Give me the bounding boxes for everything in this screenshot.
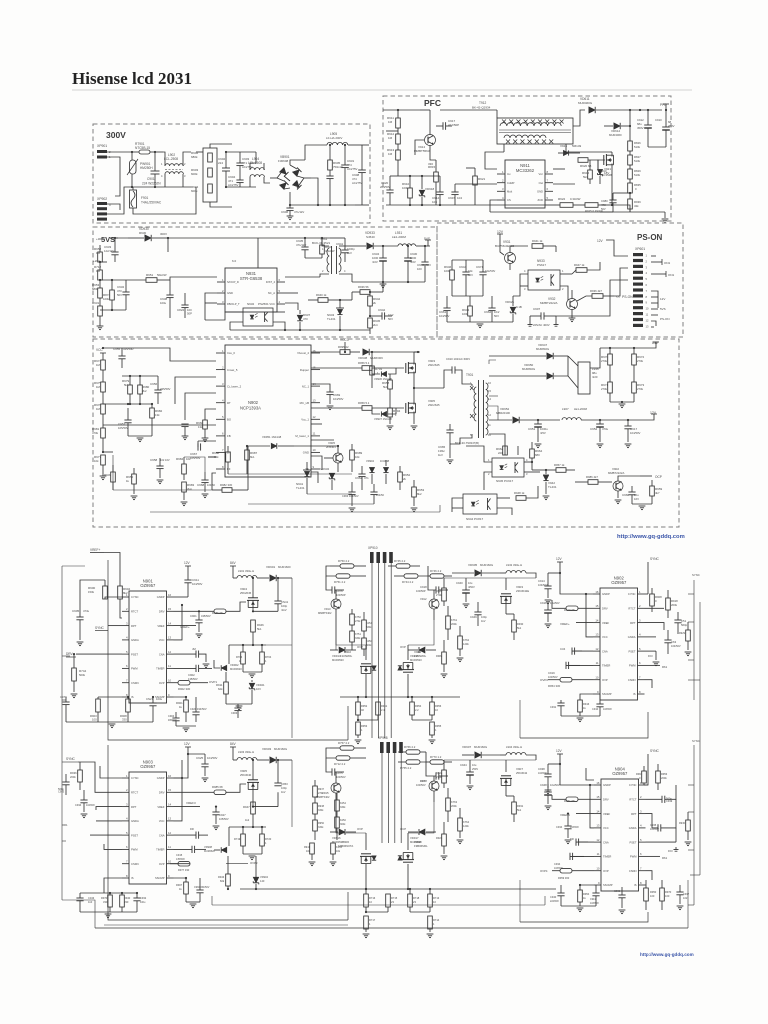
inductor T912 label: [472, 101, 491, 110]
resistor R903: [90, 699, 100, 722]
resistor R718: [408, 888, 420, 912]
svg-text:510k: 510k: [634, 145, 641, 149]
svg-text:CS: CS: [507, 198, 511, 202]
svg-text:1: 1: [361, 728, 363, 732]
svg-text:435/50V: 435/50V: [160, 387, 171, 391]
svg-text:Cmax_5: Cmax_5: [227, 368, 238, 372]
wire cross trunk: [292, 645, 520, 922]
diode VD930: [96, 227, 168, 241]
capacitor C906: [281, 204, 304, 220]
capacitor C967: [190, 441, 201, 460]
capacitor CN21: [146, 696, 163, 722]
svg-text:VD937 1N4148: VD937 1N4148: [374, 417, 392, 421]
capacitor C939d: [646, 785, 677, 803]
svg-text:MUR160G: MUR160G: [274, 747, 287, 751]
inverter controller N902: [593, 575, 645, 700]
svg-text:XP601: XP601: [635, 247, 645, 251]
connector XP901: [97, 144, 111, 159]
svg-text:Ct_lower_2: Ct_lower_2: [227, 384, 242, 388]
svg-text:0: 0: [635, 187, 637, 191]
svg-text:K763: K763: [451, 800, 458, 804]
svg-text:435/50V: 435/50V: [201, 614, 211, 618]
svg-text:7: 7: [126, 860, 128, 864]
svg-text:330: 330: [124, 900, 129, 904]
svg-text:680: 680: [535, 453, 540, 457]
svg-text:VD903: VD903: [262, 747, 272, 751]
svg-text:1kV: 1kV: [281, 790, 286, 794]
wire XP901 to node: [107, 152, 132, 214]
svg-text:GNDP: GNDP: [602, 592, 610, 596]
svg-text:1: 1: [126, 774, 128, 778]
wire GNDA N904: [646, 828, 679, 853]
svg-text:R719: R719: [234, 837, 241, 841]
wire N931 connections: [170, 277, 320, 320]
resistor K764: [457, 808, 470, 844]
svg-text:MC_LB: MC_LB: [300, 401, 309, 405]
svg-text:V915: V915: [560, 144, 567, 148]
svg-text:C914: C914: [538, 579, 545, 583]
svg-text:12: 12: [313, 415, 317, 419]
svg-text:R936 56: R936 56: [358, 285, 369, 289]
svg-text:7: 7: [639, 676, 641, 680]
svg-text:VREF+: VREF+: [560, 622, 570, 626]
svg-text:C937: C937: [683, 892, 690, 896]
inverter controller N903: [122, 759, 174, 884]
svg-text:224 W2252N: 224 W2252N: [142, 182, 161, 186]
capacitor C904: [168, 712, 196, 732]
svg-text:V913: V913: [324, 607, 331, 611]
svg-text:470: 470: [303, 317, 308, 321]
svg-text:11: 11: [313, 432, 316, 436]
capacitor C953: [624, 419, 640, 448]
capacitor C952: [590, 419, 609, 448]
capacitor C936d: [570, 837, 594, 846]
svg-text:VCC: VCC: [602, 635, 608, 639]
12V label N901: [174, 561, 192, 597]
optocoupler N933: [513, 259, 572, 296]
resistor R985b: [174, 602, 247, 615]
PFC top rail: [383, 110, 497, 131]
svg-text:270k: 270k: [637, 359, 644, 363]
svg-text:9: 9: [597, 690, 599, 694]
wire lower rail: [132, 187, 196, 214]
svg-text:NC_1: NC_1: [302, 384, 310, 388]
svg-text:10k: 10k: [94, 459, 99, 463]
PS-ON block label: [637, 233, 663, 242]
resistor R930r: [679, 812, 691, 846]
svg-text:100k: 100k: [402, 186, 409, 190]
svg-text:100u: 100u: [140, 901, 146, 904]
resistor R964c: [636, 766, 648, 785]
wire right trunk: [688, 580, 700, 905]
zener VD904: [366, 459, 375, 484]
svg-text:SYNC: SYNC: [66, 757, 76, 761]
VREF+ label N901: [90, 548, 120, 586]
MOSFET V904c: [402, 645, 427, 698]
svg-text:R770 1.2: R770 1.2: [430, 755, 442, 759]
svg-text:R948 1k: R948 1k: [514, 491, 525, 495]
wire VCC N904: [589, 784, 594, 828]
svg-text:R751 2.2: R751 2.2: [334, 580, 346, 584]
svg-text:3: 3: [524, 287, 526, 291]
svg-text:13: 13: [168, 817, 172, 821]
svg-text:7: 7: [640, 867, 642, 871]
resistor R946b: [251, 620, 264, 646]
svg-text:11: 11: [646, 313, 649, 317]
svg-text:1: 1: [639, 590, 641, 594]
svg-text:2k: 2k: [403, 477, 407, 481]
resistor R952b: [398, 466, 411, 490]
resistor R953: [92, 283, 102, 306]
svg-text:10k: 10k: [355, 455, 360, 459]
svg-text:270k: 270k: [436, 775, 442, 779]
svg-text:CNA: CNA: [159, 652, 165, 656]
svg-text:50V: 50V: [426, 263, 431, 267]
capacitor C910: [648, 109, 675, 147]
svg-text:VD901: VD901: [266, 565, 276, 569]
svg-text:RPT: RPT: [131, 805, 137, 809]
svg-text:560p: 560p: [58, 787, 64, 791]
svg-text:11: 11: [596, 661, 599, 665]
svg-text:5: 5: [222, 415, 224, 419]
svg-text:R930: R930: [679, 822, 686, 825]
resistor R985c: [174, 784, 247, 795]
svg-text:GND: GND: [227, 291, 233, 295]
svg-text:12: 12: [488, 413, 491, 417]
resistor K753: [362, 638, 373, 656]
resistor R947: [572, 262, 600, 274]
svg-text:R750 2.2: R750 2.2: [338, 559, 350, 563]
resistor R936b: [577, 289, 614, 301]
svg-text:1kV: 1kV: [347, 251, 352, 255]
svg-text:7: 7: [646, 289, 648, 293]
capacitor C973: [416, 762, 448, 787]
svg-text:270k: 270k: [355, 620, 361, 623]
resistor R955c: [429, 722, 442, 744]
svg-text:S4540: S4540: [366, 235, 375, 239]
svg-text:http://www.gq-gddq.com: http://www.gq-gddq.com: [617, 534, 685, 540]
svg-text:1: 1: [562, 269, 564, 273]
svg-text:K762: K762: [463, 638, 470, 642]
capacitor C976: [326, 576, 346, 597]
capacitor C918c: [540, 601, 560, 628]
resistor R913: [387, 144, 400, 176]
svg-text:6: 6: [640, 852, 642, 856]
svg-text:K751: K751: [355, 633, 361, 636]
capacitor C940c: [456, 578, 475, 608]
wire XP601 left pins: [556, 268, 628, 316]
svg-text:1: 1: [322, 247, 324, 251]
svg-text:13: 13: [168, 636, 172, 640]
svg-text:VD904: VD904: [260, 875, 268, 879]
pill R951d: [552, 795, 594, 803]
resistor R920: [578, 158, 598, 169]
resistor R826: [628, 141, 641, 155]
capacitor C920: [380, 176, 435, 205]
svg-text:C948: C948: [540, 783, 547, 787]
svg-text:C958: C958: [150, 458, 158, 462]
capacitor C925: [187, 753, 218, 782]
svg-text:MUR1600: MUR1600: [278, 565, 291, 569]
svg-text:9: 9: [646, 301, 648, 305]
svg-text:11: 11: [597, 852, 600, 856]
resistor R970d: [660, 880, 672, 910]
svg-text:T901: T901: [466, 373, 473, 377]
svg-text:N932: N932: [247, 302, 255, 306]
svg-text:4: 4: [646, 271, 648, 275]
svg-text:600k: 600k: [191, 172, 198, 176]
svg-text:/16V: /16V: [410, 260, 416, 264]
capacitor C975: [326, 758, 346, 779]
svg-text:104/50V: 104/50V: [86, 804, 95, 807]
svg-text:C935: C935: [650, 823, 657, 827]
resistor R716: [364, 888, 376, 912]
12V label N903: [174, 742, 192, 778]
transformer T901: [455, 373, 491, 445]
pill R919: [552, 600, 593, 612]
svg-text:8: 8: [646, 295, 648, 299]
svg-text:C34: C34: [560, 647, 566, 651]
resistor R902p: [174, 680, 218, 691]
svg-text:470u: 470u: [602, 427, 609, 431]
svg-text:R941 1k: R941 1k: [532, 239, 543, 243]
pill R959d: [540, 868, 594, 880]
svg-text:13k: 13k: [198, 425, 203, 429]
diode VD611: [578, 97, 641, 113]
resistor R980: [138, 376, 150, 404]
resistor R250: [335, 817, 347, 840]
svg-text:2: 2: [488, 472, 490, 476]
wire to T901: [462, 380, 472, 386]
choke L946: [568, 348, 648, 394]
diode VD903b: [252, 747, 292, 763]
connector XP908: [378, 736, 403, 753]
shunt regulator N941 TL431: [296, 462, 311, 494]
resistor R970: [601, 347, 612, 382]
svg-text:PS2561: PS2561: [258, 302, 269, 306]
svg-text:ON1: ON1: [664, 261, 671, 265]
resistor K752: [362, 612, 373, 638]
SYNC label N903: [66, 757, 122, 792]
svg-text:C941: C941: [336, 242, 344, 246]
svg-text:MMBT5402: MMBT5402: [318, 611, 332, 615]
svg-text:16: 16: [596, 781, 600, 785]
svg-text:1M: 1M: [96, 407, 101, 411]
svg-text:2: 2: [646, 259, 648, 263]
resistor R929r: [679, 622, 691, 656]
svg-text:1M: 1M: [388, 120, 393, 124]
resistor R254: [335, 793, 347, 817]
svg-text:140: 140: [260, 879, 265, 883]
svg-text:750mW: 750mW: [333, 165, 343, 169]
svg-text:R940: R940: [124, 896, 131, 900]
resistor R745: [388, 559, 420, 568]
svg-text:PSET: PSET: [629, 840, 636, 844]
svg-text:OZ9957: OZ9957: [140, 764, 156, 769]
svg-text:RPT: RPT: [131, 624, 137, 628]
svg-text:C915: C915: [448, 196, 456, 200]
svg-text:VREF+: VREF+: [180, 625, 190, 629]
svg-text:104/50: 104/50: [376, 493, 384, 497]
svg-text:R954 330: R954 330: [548, 684, 561, 688]
resistor R983b: [181, 482, 195, 506]
resistor R931c: [506, 796, 524, 822]
svg-text:270k: 270k: [601, 359, 608, 363]
svg-text:PSET: PSET: [131, 652, 138, 656]
diode VD937b: [372, 408, 396, 421]
svg-text:300k: 300k: [340, 823, 346, 826]
capacitor C914b: [538, 572, 561, 604]
svg-text:VCC: VCC: [159, 819, 165, 823]
resistor R981: [92, 427, 105, 453]
wire N902 PWM: [645, 665, 668, 669]
svg-text:10: 10: [433, 900, 436, 904]
svg-text:225/AC 400V: 225/AC 400V: [533, 323, 550, 327]
capacitor C980b: [601, 193, 620, 212]
svg-text:CYNC: CYNC: [628, 592, 636, 596]
svg-text:9: 9: [313, 465, 315, 469]
svg-text:135/50V: 135/50V: [176, 858, 185, 861]
wire 300V out: [362, 145, 369, 205]
diode VD951: [248, 435, 294, 449]
capacitor C977: [416, 576, 448, 594]
svg-text:MMBT2222A: MMBT2222A: [608, 471, 624, 475]
svg-text:NC_A: NC_A: [268, 291, 275, 295]
svg-text:F9B06N0TA: F9B06N0TA: [338, 844, 353, 848]
svg-text:16: 16: [488, 381, 491, 385]
svg-text:3: 3: [222, 382, 224, 386]
svg-text:6: 6: [646, 283, 648, 287]
svg-text:R977 330: R977 330: [178, 868, 190, 872]
website url bottom: [640, 952, 694, 957]
svg-text:VREF: VREF: [603, 812, 611, 816]
svg-text:1kV: 1kV: [438, 453, 443, 457]
svg-text:100k: 100k: [462, 312, 469, 316]
resistor R922: [545, 197, 585, 207]
transistor V913: [318, 590, 341, 622]
resistor R757: [330, 741, 366, 750]
wire pfc right bottom: [600, 110, 668, 223]
diode V915: [558, 144, 582, 156]
svg-text:V917: V917: [420, 779, 427, 783]
capacitor C933: [104, 237, 128, 262]
capacitor C968: [184, 457, 216, 498]
svg-text:OVP: OVP: [602, 678, 608, 682]
svg-text:1k: 1k: [179, 887, 182, 891]
capacitor C904: [226, 152, 256, 187]
capacitor C940d: [550, 885, 565, 906]
svg-text:Inv: Inv: [507, 172, 511, 176]
capacitor C964: [370, 484, 384, 504]
wire SSCMP N901: [174, 696, 188, 700]
svg-text:R717: R717: [369, 918, 376, 922]
capacitor C944: [459, 260, 473, 296]
zener VD921b: [447, 296, 522, 328]
svg-text:LE1-200M: LE1-200M: [392, 235, 406, 239]
VREF label N902: [560, 622, 593, 626]
svg-text:R716: R716: [369, 896, 376, 900]
svg-text:AC275V: AC275V: [347, 167, 358, 171]
svg-text:F30608: F30608: [278, 159, 289, 163]
svg-text:OCP: OCP: [655, 475, 662, 479]
svg-text:MMBT2222A: MMBT2222A: [540, 301, 558, 305]
svg-text:330: 330: [103, 900, 108, 904]
svg-text:300V: 300V: [160, 232, 167, 236]
svg-text:2SK2645: 2SK2645: [428, 363, 440, 367]
resistor R715: [365, 894, 398, 913]
svg-text:N945 PC917: N945 PC917: [496, 479, 514, 483]
svg-text:OZ9957: OZ9957: [612, 771, 628, 776]
resistor R900: [88, 580, 122, 599]
resistor R951c: [357, 702, 388, 721]
12V label N904: [556, 749, 594, 785]
svg-text:F10SM0L: F10SM0L: [340, 654, 353, 658]
resistor R942: [368, 291, 381, 316]
wire N904 outer loop: [95, 912, 648, 930]
svg-text:15: 15: [488, 389, 491, 393]
capacitor C908: [352, 145, 366, 205]
svg-text:2k: 2k: [373, 301, 377, 305]
svg-text:12V: 12V: [660, 297, 665, 301]
svg-text:471/1kV: 471/1kV: [294, 210, 304, 214]
svg-text:R921: R921: [436, 836, 443, 840]
MOSFET V904b: [240, 578, 259, 612]
svg-text:C962: C962: [355, 476, 363, 480]
capacitor C936e: [614, 887, 626, 914]
svg-text:F901: F901: [141, 196, 148, 200]
capacitor C948c: [540, 783, 560, 810]
connector XP902: [97, 197, 111, 221]
resistor R911: [387, 109, 400, 128]
wire SSCMP N904: [579, 884, 594, 890]
svg-text:1: 1: [265, 659, 267, 663]
svg-text:C940: C940: [550, 895, 557, 899]
inverter controller N904: [594, 766, 646, 891]
svg-text:/1kV: /1kV: [281, 608, 287, 612]
choke L905: [326, 132, 342, 140]
svg-text:DRV: DRV: [66, 652, 74, 656]
diode VD916: [330, 806, 363, 844]
svg-text:OVP4: OVP4: [540, 869, 548, 873]
svg-text:5: 5: [126, 831, 128, 835]
svg-text:4: 4: [126, 817, 128, 821]
resistor R874: [103, 280, 114, 310]
svg-text:12V: 12V: [556, 557, 563, 561]
svg-text:VD932: VD932: [320, 467, 330, 471]
svg-text:R757 2.2: R757 2.2: [338, 741, 350, 745]
resistor R915: [428, 160, 438, 205]
svg-text:103/50V: 103/50V: [336, 775, 346, 779]
svg-text:470k: 470k: [92, 431, 99, 435]
svg-text:1: 1: [222, 349, 224, 353]
wire N902 top rail: [311, 351, 420, 353]
svg-text:100p: 100p: [281, 786, 287, 790]
svg-text:2SK2645: 2SK2645: [428, 403, 440, 407]
capacitor C932c: [80, 892, 147, 918]
svg-text:PFC: PFC: [424, 98, 441, 108]
svg-text:MUR460G: MUR460G: [578, 101, 593, 105]
svg-text:2: 2: [126, 788, 128, 792]
svg-text:R930: R930: [517, 622, 524, 626]
svg-text:FF3: FF3: [668, 849, 673, 853]
website url: [617, 534, 685, 540]
svg-text:4: 4: [344, 269, 346, 273]
svg-text:R744 2.2: R744 2.2: [402, 580, 414, 584]
svg-text:C938: C938: [538, 767, 545, 771]
svg-text:270k: 270k: [601, 387, 608, 391]
resistor R750: [330, 559, 366, 568]
wire pfc bottom: [435, 205, 630, 212]
